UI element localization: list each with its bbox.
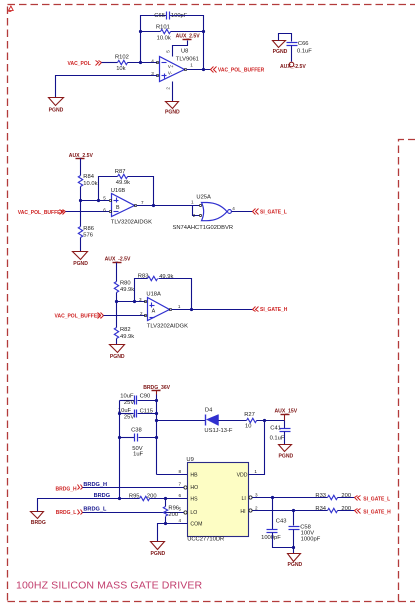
svg-text:R33: R33 xyxy=(315,493,326,499)
power AUX_15V xyxy=(275,408,298,420)
svg-text:R27: R27 xyxy=(244,412,255,418)
resistor R34 xyxy=(315,506,351,513)
svg-text:PGND: PGND xyxy=(49,108,64,114)
wire R33 to port xyxy=(338,497,355,499)
capacitor C41 xyxy=(270,421,291,442)
ground PGND (COM) xyxy=(151,542,166,557)
svg-text:AUX_-2.5V: AUX_-2.5V xyxy=(105,256,131,262)
svg-text:C65: C65 xyxy=(154,13,165,19)
svg-text:49.9k: 49.9k xyxy=(159,274,173,280)
ground PGND (C43/C58) xyxy=(288,554,303,569)
svg-text:VAC_POL: VAC_POL xyxy=(68,61,91,67)
wire rail to D4 xyxy=(157,420,206,422)
wire R86 to PGND xyxy=(80,238,82,252)
svg-text:HS: HS xyxy=(190,496,198,502)
svg-text:7: 7 xyxy=(141,200,144,205)
junction output xyxy=(202,68,205,71)
svg-text:BRDG: BRDG xyxy=(94,493,110,499)
junction C43/C58 ground xyxy=(292,546,295,549)
wire right rail to output xyxy=(203,32,205,70)
svg-text:C66: C66 xyxy=(298,41,309,47)
wire R101 row xyxy=(141,31,204,33)
svg-text:AUX_2.5V: AUX_2.5V xyxy=(176,34,201,40)
junction rail D4 branch xyxy=(155,419,158,422)
svg-text:1000pF: 1000pF xyxy=(261,535,281,541)
svg-text:2: 2 xyxy=(165,87,170,90)
svg-text:V+: V+ xyxy=(168,64,174,69)
nor gate U25A xyxy=(173,195,236,232)
svg-text:BRDG_H: BRDG_H xyxy=(83,482,107,488)
svg-text:PGND: PGND xyxy=(151,551,166,557)
wire R80 to node xyxy=(116,293,118,302)
wire R34 to port xyxy=(338,510,355,512)
junction feedback node xyxy=(97,199,100,202)
svg-text:576: 576 xyxy=(83,233,93,239)
svg-text:10.0k: 10.0k xyxy=(83,181,97,187)
resistor R86 xyxy=(78,226,94,239)
junction R96 top xyxy=(164,497,167,500)
svg-text:U25A: U25A xyxy=(196,195,211,201)
wire VAC_POL_BUFFER to pin2 xyxy=(104,315,146,317)
ground PGND (U8 V-) xyxy=(165,102,180,116)
wire BRDG_36V rail xyxy=(156,395,158,475)
port BRDG_L xyxy=(56,510,83,517)
resistor R27 xyxy=(244,412,256,429)
svg-text:R84: R84 xyxy=(83,174,94,180)
power AUX_-2.5V (circle symbol) xyxy=(280,62,306,70)
port SI_GATE_L (section4) xyxy=(355,496,391,503)
svg-text:4: 4 xyxy=(151,58,154,63)
wire C43 bottom xyxy=(273,533,294,548)
sheet border left (dashed) xyxy=(7,7,9,602)
svg-text:TLV3202AIDGK: TLV3202AIDGK xyxy=(111,219,152,225)
wire left rail xyxy=(119,401,121,499)
svg-text:PGND: PGND xyxy=(110,354,125,360)
capacitor C65 xyxy=(154,12,187,20)
svg-text:SI_GATE_H: SI_GATE_H xyxy=(363,509,391,515)
svg-text:2: 2 xyxy=(193,213,196,218)
wire node to pin5 xyxy=(81,200,110,202)
svg-text:3: 3 xyxy=(139,297,142,302)
svg-text:BRDG_L: BRDG_L xyxy=(56,510,77,516)
resistor R95 xyxy=(129,493,157,500)
capacitor C66 xyxy=(287,41,313,54)
svg-text:3: 3 xyxy=(255,493,258,498)
svg-text:1000pF: 1000pF xyxy=(301,536,321,542)
port BRDG_H xyxy=(56,485,83,493)
svg-text:C38: C38 xyxy=(131,427,142,433)
svg-text:6: 6 xyxy=(103,207,106,212)
wire R82 to PGND xyxy=(116,339,118,345)
junction output/feedback (U18A) xyxy=(190,308,193,311)
svg-text:V-: V- xyxy=(168,70,173,75)
svg-text:R80: R80 xyxy=(120,281,131,287)
wire VAC_POL to R102 xyxy=(102,62,118,64)
svg-text:R96: R96 xyxy=(168,506,179,512)
svg-text:PGND: PGND xyxy=(273,49,288,55)
junction R101 left xyxy=(139,30,142,33)
svg-text:C41: C41 xyxy=(270,425,281,431)
wire R27 to AUX_15V xyxy=(257,420,285,422)
svg-text:0.1uF: 0.1uF xyxy=(270,436,285,442)
svg-text:PGND: PGND xyxy=(165,109,180,115)
svg-text:D4: D4 xyxy=(205,408,213,414)
svg-text:R95: R95 xyxy=(129,493,140,499)
svg-text:HO: HO xyxy=(190,485,198,491)
resistor R83 xyxy=(138,273,174,280)
wire VAC_POL_BUFFER to pin6 xyxy=(66,211,110,213)
wire node to pin3 xyxy=(117,301,146,303)
ground PGND (C41) xyxy=(279,445,294,460)
svg-text:C43: C43 xyxy=(276,519,287,525)
svg-text:R82: R82 xyxy=(120,327,131,333)
ground PGND (divider) xyxy=(73,252,89,267)
svg-text:TLV9061: TLV9061 xyxy=(176,57,199,63)
svg-text:SI_GATE_L: SI_GATE_L xyxy=(260,210,287,216)
junction divider node (U18A) xyxy=(115,300,118,303)
wire node to R86 xyxy=(80,201,82,227)
svg-text:2: 2 xyxy=(255,506,258,511)
resistor R84 xyxy=(78,174,97,187)
wire feedback loop (U18A) xyxy=(135,279,192,310)
svg-text:BRDG_H: BRDG_H xyxy=(56,486,78,492)
svg-text:SI_GATE_L: SI_GATE_L xyxy=(363,496,390,502)
resistor R102 xyxy=(115,55,129,72)
svg-text:AUX_15V: AUX_15V xyxy=(275,408,298,414)
resistor R87 xyxy=(115,169,130,186)
wire gate output xyxy=(232,211,253,213)
svg-text:1: 1 xyxy=(254,469,257,474)
wire BRDG_L to LO xyxy=(83,512,184,514)
svg-text:0.1uF: 0.1uF xyxy=(297,48,312,54)
svg-text:VDD: VDD xyxy=(237,473,248,479)
svg-text:49.9k: 49.9k xyxy=(120,334,134,340)
svg-text:49.9k: 49.9k xyxy=(120,287,134,293)
svg-text:200: 200 xyxy=(168,512,178,518)
wire left feedback rail xyxy=(141,16,167,63)
svg-text:8: 8 xyxy=(179,469,182,474)
power AUX_2.5V (U8 V+) xyxy=(173,34,201,57)
power AUX_2.5V (divider top) xyxy=(69,153,94,176)
svg-text:LO: LO xyxy=(190,510,197,516)
wire R95 to HS xyxy=(150,498,188,500)
svg-text:R86: R86 xyxy=(83,226,94,232)
svg-text:PGND: PGND xyxy=(279,453,294,459)
junction node (input/feedback) xyxy=(139,61,142,64)
wire C58 bottom xyxy=(293,530,295,554)
comparator U16B xyxy=(103,188,152,225)
wire node to R82 xyxy=(116,302,118,328)
capacitor C90 xyxy=(120,394,157,407)
port SI_GATE_H (section4) xyxy=(355,509,392,516)
svg-text:10k: 10k xyxy=(116,66,125,72)
junction rail C115 xyxy=(155,412,158,415)
wire D4 to R27 xyxy=(219,420,247,422)
corner marker A xyxy=(9,6,14,10)
resistor R96 xyxy=(163,499,179,524)
svg-text:SN74AHCT1G02DBVR: SN74AHCT1G02DBVR xyxy=(173,225,234,231)
capacitor C115 xyxy=(118,408,157,420)
svg-text:R101: R101 xyxy=(156,25,170,31)
svg-text:U9: U9 xyxy=(186,457,193,463)
wire BRDG to R95 xyxy=(120,498,140,500)
junction BRDG rail xyxy=(118,497,121,500)
svg-text:TLV3202AIDGK: TLV3202AIDGK xyxy=(147,324,188,330)
sheet border bottom (dashed) xyxy=(8,601,415,603)
resistor R82 xyxy=(114,327,134,340)
svg-text:U16B: U16B xyxy=(111,188,126,194)
svg-text:R34: R34 xyxy=(315,506,326,512)
diode D4 xyxy=(204,408,232,435)
svg-text:US1J-13-F: US1J-13-F xyxy=(204,428,232,434)
junction left rail C115 xyxy=(118,412,121,415)
svg-text:10uF: 10uF xyxy=(120,394,134,400)
svg-text:1: 1 xyxy=(190,63,193,68)
svg-text:VAC_POL_BUFFER: VAC_POL_BUFFER xyxy=(218,67,265,73)
svg-text:1: 1 xyxy=(191,200,194,205)
wire COM to PGND xyxy=(158,524,188,542)
wire U8 V- to PGND xyxy=(172,82,174,102)
wire C41 to PGND xyxy=(284,432,286,445)
wire comparator output (U18A) xyxy=(172,309,253,311)
svg-text:U18A: U18A xyxy=(146,292,161,298)
svg-text:2: 2 xyxy=(140,311,143,316)
svg-text:B: B xyxy=(116,205,120,211)
power BRDG_36V xyxy=(143,385,170,395)
capacitor C38 xyxy=(120,427,157,457)
port VAC_POL_BUFFER xyxy=(211,67,265,74)
svg-text:100HZ SILICON MASS GATE DRIVER: 100HZ SILICON MASS GATE DRIVER xyxy=(16,579,203,591)
svg-text:HI: HI xyxy=(240,509,245,515)
svg-text:PGND: PGND xyxy=(73,261,88,267)
svg-text:COM: COM xyxy=(190,522,202,528)
wire VDD riser xyxy=(249,421,265,475)
wire U8 pin3 xyxy=(56,76,158,98)
svg-text:R102: R102 xyxy=(115,55,129,61)
power symbol BRDG xyxy=(31,499,120,526)
svg-text:A: A xyxy=(152,308,156,314)
IC U9 UCC27710DR xyxy=(179,457,259,542)
port VAC_POL_BUFFER (section3) xyxy=(55,313,104,320)
sheet border top (dashed) xyxy=(8,4,415,6)
comparator U18A xyxy=(139,292,188,330)
junction C43 top xyxy=(271,496,274,499)
power AUX_-2.5V (divider top) xyxy=(105,256,131,281)
svg-text:5: 5 xyxy=(165,50,170,53)
inner region border right (dashed corner) xyxy=(399,140,415,602)
svg-text:HB: HB xyxy=(190,473,198,479)
svg-text:49.9k: 49.9k xyxy=(116,180,130,186)
svg-text:R83: R83 xyxy=(138,273,149,279)
ground PGND (pin3) xyxy=(49,98,64,114)
port VAC_POL_BUFFER (section2) xyxy=(18,210,66,216)
junction output/feedback xyxy=(152,204,155,207)
svg-text:SI_GATE_H: SI_GATE_H xyxy=(260,307,288,313)
svg-text:C115: C115 xyxy=(140,408,153,414)
svg-text:VAC_POL_BUFFER: VAC_POL_BUFFER xyxy=(55,314,102,320)
svg-text:AUX_-2.5V: AUX_-2.5V xyxy=(280,64,306,70)
wire comparator output xyxy=(137,205,200,207)
resistor R80 xyxy=(114,281,134,294)
wire LI row xyxy=(253,497,328,499)
wire BRDG_H to HO xyxy=(83,487,184,489)
ground PGND (C66) xyxy=(273,34,292,55)
svg-text:10: 10 xyxy=(245,424,251,430)
junction feedback node (U18A) xyxy=(133,300,136,303)
svg-text:LI: LI xyxy=(242,496,246,502)
svg-text:4: 4 xyxy=(232,206,235,211)
capacitor C58 xyxy=(289,511,321,543)
svg-text:4: 4 xyxy=(179,518,182,523)
svg-text:R87: R87 xyxy=(115,169,126,175)
svg-text:UCC27710DR: UCC27710DR xyxy=(187,537,224,543)
junction divider node xyxy=(79,199,82,202)
resistor R101 xyxy=(156,25,171,42)
wire HI row xyxy=(253,510,328,512)
port VAC_POL xyxy=(68,61,102,67)
port SI_GATE_H (section3) xyxy=(253,307,288,314)
junction C58 top xyxy=(292,509,295,512)
svg-text:25V: 25V xyxy=(124,414,134,420)
svg-text:BRDG_L: BRDG_L xyxy=(83,506,107,512)
wire C66 to AUX_-2.5V xyxy=(291,46,293,62)
wire branch to gate pin2 xyxy=(193,206,200,216)
junction VDD xyxy=(263,419,266,422)
wire output xyxy=(187,69,211,71)
svg-text:7: 7 xyxy=(179,482,182,487)
svg-text:1: 1 xyxy=(178,304,181,309)
wire R84 to node xyxy=(80,187,82,201)
port SI_GATE_L (section2) xyxy=(253,209,287,216)
svg-text:U8: U8 xyxy=(181,49,188,55)
wire rail to HB pin xyxy=(157,474,188,476)
svg-text:PGND: PGND xyxy=(288,562,303,568)
junction R96 bottom xyxy=(164,522,167,525)
svg-text:6: 6 xyxy=(179,493,182,498)
svg-text:5: 5 xyxy=(103,196,106,201)
junction rail C38 xyxy=(155,436,158,439)
ground PGND (U18A divider) xyxy=(110,345,125,361)
svg-text:C90: C90 xyxy=(140,394,151,400)
junction rail C90 xyxy=(155,399,158,402)
wire R102 to U8 pin4 xyxy=(128,62,158,64)
wire C65 to right rail xyxy=(170,16,204,32)
op-amp U8 TLV9061 xyxy=(151,49,199,90)
svg-text:10.0k: 10.0k xyxy=(157,35,171,41)
resistor R33 xyxy=(315,493,351,500)
capacitor C43 xyxy=(261,498,286,541)
svg-text:BRDG: BRDG xyxy=(31,520,46,526)
svg-text:VAC_POL_BUFFER: VAC_POL_BUFFER xyxy=(18,210,65,216)
svg-text:1uF: 1uF xyxy=(133,452,143,458)
wire feedback loop xyxy=(99,177,154,206)
svg-text:25V: 25V xyxy=(124,400,134,406)
junction R101 right xyxy=(202,30,205,33)
junction left rail C38 xyxy=(118,436,121,439)
